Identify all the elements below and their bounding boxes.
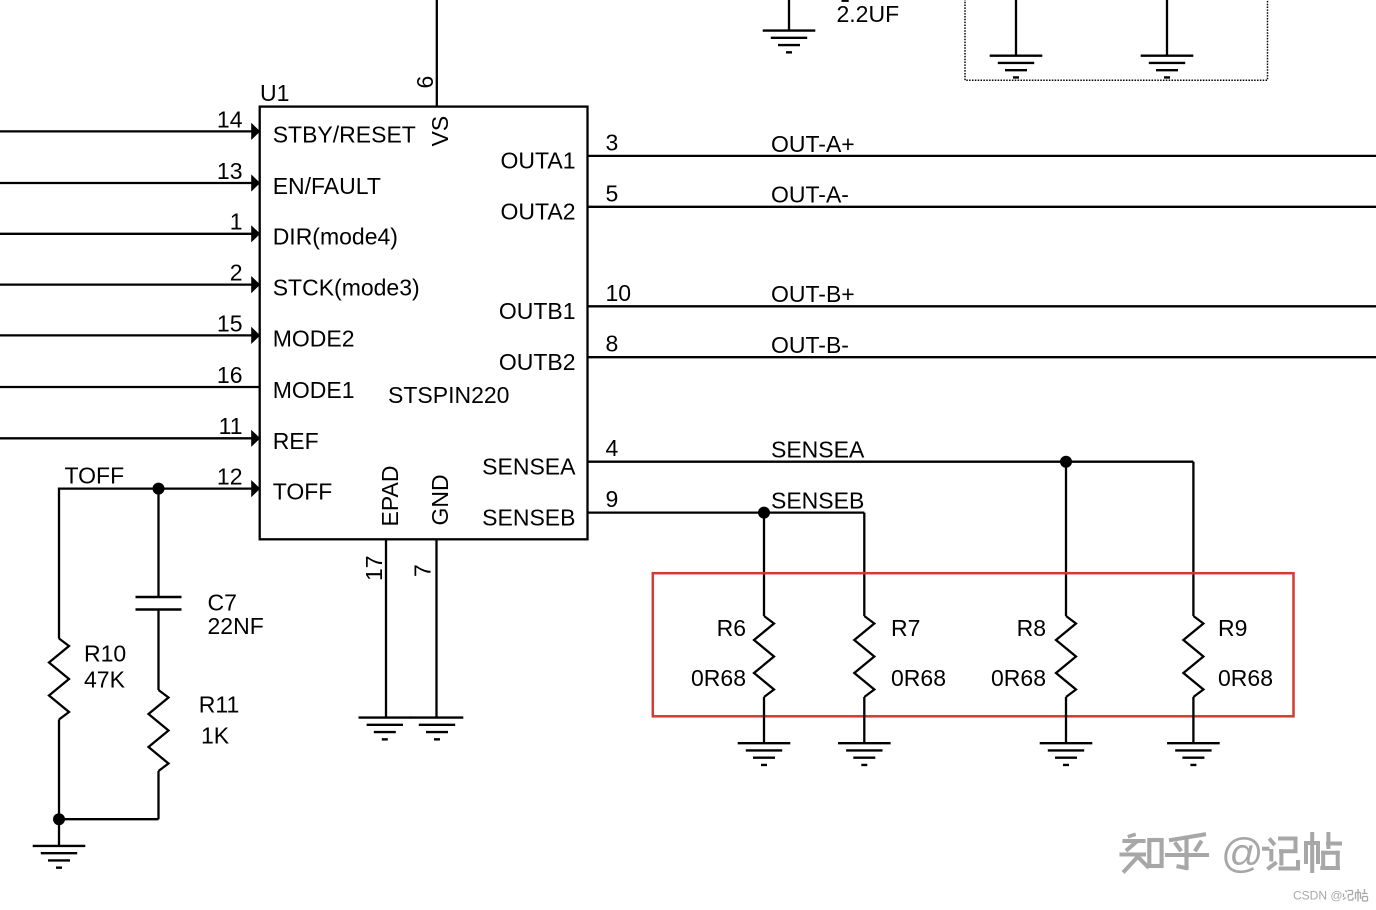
resistor R6	[754, 616, 774, 697]
ground (EPAD pin 17)	[359, 718, 412, 740]
svg-text:13: 13	[217, 158, 243, 184]
resistor R9	[1183, 616, 1203, 697]
svg-text:R11: R11	[199, 692, 240, 718]
ground (inside dotted box, right)	[1141, 56, 1194, 78]
svg-text:STSPIN220: STSPIN220	[388, 382, 509, 408]
pin name EPAD (rotated)	[377, 466, 403, 527]
node TOFF junction dot	[153, 483, 165, 495]
svg-text:R10: R10	[84, 641, 126, 667]
svg-text:3: 3	[606, 129, 619, 155]
svg-text:10: 10	[606, 280, 632, 306]
svg-text:SENSEA: SENSEA	[482, 453, 576, 479]
ground (top, under 2.2UF cap)	[763, 31, 816, 53]
pin 5 OUTA2 (wire, number, name, net label OUT-A-)	[501, 180, 1376, 224]
wire to ground (inside dotted box, right)	[1166, 0, 1168, 56]
svg-text:1: 1	[230, 209, 243, 235]
svg-text:STBY/RESET: STBY/RESET	[273, 121, 416, 147]
watermark CSDN @记帖	[1293, 889, 1368, 903]
wire R10 bottom vertical	[58, 720, 60, 820]
svg-text:7: 7	[410, 564, 436, 577]
pin 16 MODE1 (wire, arrow, number, name)	[0, 362, 354, 403]
label 1K	[201, 722, 230, 748]
wire C7 to R11	[157, 610, 159, 691]
pin 7 GND (wire)	[435, 539, 437, 717]
svg-text:11: 11	[219, 413, 243, 439]
svg-text:0R68: 0R68	[991, 665, 1046, 691]
svg-text:6: 6	[412, 76, 438, 89]
label R10	[84, 641, 126, 667]
svg-text:TOFF: TOFF	[65, 463, 125, 489]
resistor R8	[1056, 616, 1076, 697]
svg-text:1K: 1K	[201, 722, 230, 748]
pin 4 SENSEA (wire, number, name, net label SENSEA)	[482, 435, 1193, 479]
svg-text:0R68: 0R68	[891, 665, 946, 691]
svg-text:OUTA1: OUTA1	[501, 148, 576, 174]
pin 8 OUTB2 (wire, number, name, net label OUT-B-)	[499, 331, 1376, 375]
ground (GND pin 7)	[411, 718, 464, 740]
svg-text:R9: R9	[1218, 615, 1247, 641]
label R8	[1017, 615, 1046, 641]
wire R8 to ground	[1065, 697, 1067, 743]
part name STSPIN220	[388, 382, 509, 408]
capacitor C7	[136, 597, 182, 610]
wire VS pin 6 net (top)	[436, 0, 438, 107]
wire TOFF left vertical	[58, 488, 60, 639]
wire R9 branch vertical	[1192, 462, 1194, 616]
label R11	[199, 692, 240, 718]
pin name VS (rotated)	[427, 116, 453, 147]
resistor R11	[149, 690, 169, 771]
label R7	[891, 615, 920, 641]
ground (R6)	[738, 743, 791, 765]
svg-text:GND: GND	[427, 474, 453, 525]
label 47K	[84, 667, 126, 693]
svg-text:MODE1: MODE1	[273, 377, 355, 403]
dotted box (motor connector region)	[965, 0, 1268, 80]
label 22NF	[208, 613, 264, 639]
svg-text:VS: VS	[427, 116, 453, 147]
wire R11 bottom vertical	[157, 771, 159, 819]
svg-text:CSDN @: CSDN @	[1293, 889, 1343, 903]
node ground junction dot	[53, 813, 65, 825]
capacitor value label 2.2UF	[837, 1, 900, 27]
svg-text:EN/FAULT: EN/FAULT	[273, 173, 381, 199]
svg-text:8: 8	[606, 331, 619, 357]
svg-text:17: 17	[361, 555, 387, 581]
pin 1 DIR(mode4) (wire, arrow, number, name)	[0, 209, 398, 250]
pin name GND (rotated)	[427, 474, 453, 525]
svg-text:OUTA2: OUTA2	[501, 199, 576, 225]
svg-text:R8: R8	[1017, 615, 1046, 641]
svg-text:47K: 47K	[84, 667, 126, 693]
svg-text:U1: U1	[260, 80, 289, 106]
svg-text:14: 14	[217, 106, 243, 132]
pin number 6 (rotated)	[412, 76, 438, 89]
reference designator U1	[260, 80, 289, 106]
resistor R10	[49, 639, 69, 720]
svg-text:OUT-B-: OUT-B-	[771, 332, 849, 358]
wire R9 to ground	[1192, 697, 1194, 743]
svg-text:4: 4	[606, 435, 619, 461]
resistor R7	[854, 616, 874, 697]
svg-text:OUT-A+: OUT-A+	[771, 131, 855, 157]
wire to ground (inside dotted box, left)	[1015, 0, 1017, 56]
net label TOFF	[65, 463, 125, 489]
ground (R9)	[1167, 743, 1220, 765]
wire capacitor C6 to ground (top)	[788, 0, 790, 31]
wire C7 branch vertical (top)	[157, 489, 159, 597]
pin 11 REF (wire, arrow, number, name)	[0, 413, 319, 454]
svg-text:OUTB2: OUTB2	[499, 349, 576, 375]
svg-text:STCK(mode3): STCK(mode3)	[273, 275, 420, 301]
wire R7 branch vertical	[863, 513, 865, 616]
svg-text:SENSEA: SENSEA	[771, 437, 865, 463]
label C7	[208, 590, 237, 616]
label 0R68 (R8)	[991, 665, 1046, 691]
svg-text:@: @	[1221, 830, 1264, 877]
wire R7 to ground	[863, 697, 865, 743]
wire R6 branch vertical	[763, 513, 765, 616]
pin 17 EPAD (wire)	[385, 539, 387, 717]
text remnant at top edge	[842, 0, 849, 2]
svg-text:OUT-B+: OUT-B+	[771, 281, 855, 307]
ground (R7)	[838, 743, 891, 765]
svg-text:R7: R7	[891, 615, 920, 641]
svg-text:2.2UF: 2.2UF	[837, 1, 900, 27]
ground (bottom left)	[33, 846, 86, 868]
pin 9 SENSEB (wire, number, name, net label SENSEB)	[482, 486, 864, 530]
node SENSEB junction dot	[758, 507, 770, 519]
wire junction to ground	[58, 819, 60, 846]
label 0R68 (R9)	[1218, 665, 1273, 691]
wire bottom horizontal to ground	[59, 818, 159, 820]
label R9	[1218, 615, 1247, 641]
svg-text:OUT-A-: OUT-A-	[771, 182, 849, 208]
pin 10 OUTB1 (wire, number, name, net label OUT-B+)	[499, 280, 1376, 324]
wire R8 branch vertical	[1065, 462, 1067, 616]
pin 14 STBY/RESET (wire, arrow, number, name)	[0, 106, 416, 147]
svg-text:REF: REF	[273, 428, 319, 454]
svg-text:0R68: 0R68	[1218, 665, 1273, 691]
svg-text:OUTB1: OUTB1	[499, 298, 576, 324]
svg-text:EPAD: EPAD	[377, 466, 403, 527]
svg-text:R6: R6	[717, 615, 746, 641]
pin number 17 (rotated)	[361, 555, 387, 581]
svg-text:12: 12	[217, 464, 243, 490]
svg-text:0R68: 0R68	[691, 665, 746, 691]
pin number 7 (rotated)	[410, 564, 436, 577]
label R6	[717, 615, 746, 641]
pin 3 OUTA1 (wire, number, name, net label OUT-A+)	[501, 129, 1376, 173]
svg-text:C7: C7	[208, 590, 237, 616]
svg-text:15: 15	[217, 310, 243, 336]
IC U1 body (STSPIN220)	[260, 107, 588, 540]
svg-text:22NF: 22NF	[208, 613, 264, 639]
svg-text:DIR(mode4): DIR(mode4)	[273, 224, 398, 250]
pin 13 EN/FAULT (wire, arrow, number, name)	[0, 158, 381, 199]
wire R6 to ground	[763, 697, 765, 743]
svg-text:TOFF: TOFF	[273, 479, 333, 505]
label 0R68 (R6)	[691, 665, 746, 691]
svg-text:SENSEB: SENSEB	[771, 488, 864, 514]
pin 12 TOFF (wire, arrow, number, name)	[59, 464, 332, 505]
svg-text:2: 2	[230, 260, 243, 286]
pin 2 STCK(mode3) (wire, arrow, number, name)	[0, 260, 420, 301]
ground (inside dotted box, left)	[990, 56, 1043, 78]
watermark 知乎 @记帖	[1122, 830, 1341, 877]
svg-text:9: 9	[606, 486, 619, 512]
svg-text:16: 16	[217, 362, 243, 388]
red highlight box	[653, 573, 1294, 716]
svg-text:SENSEB: SENSEB	[482, 504, 575, 530]
svg-text:5: 5	[606, 180, 619, 206]
label 0R68 (R7)	[891, 665, 946, 691]
svg-text:MODE2: MODE2	[273, 325, 355, 351]
pin 15 MODE2 (wire, arrow, number, name)	[0, 310, 354, 351]
ground (R8)	[1040, 743, 1093, 765]
node SENSEA junction dot	[1060, 456, 1072, 468]
